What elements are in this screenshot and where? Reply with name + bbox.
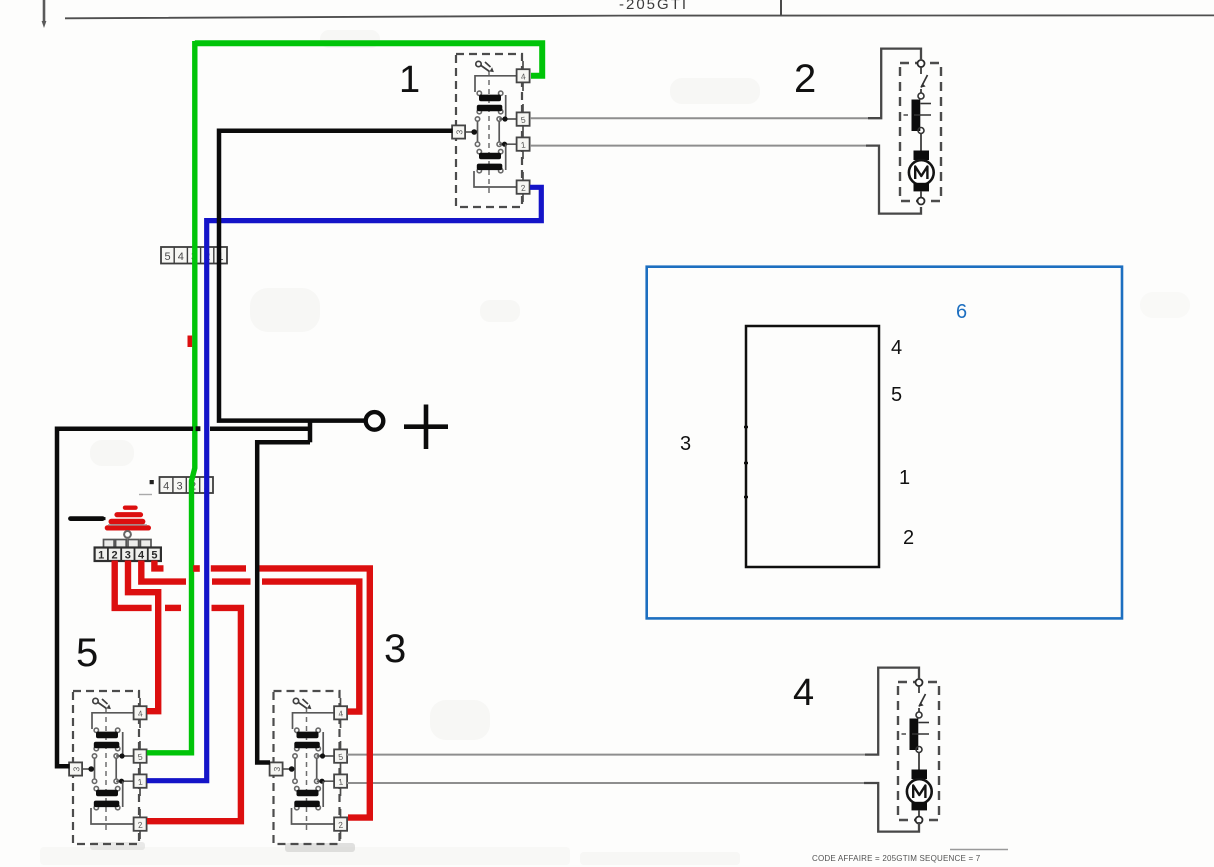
title block left tick bbox=[43, 0, 46, 22]
svg-text:1: 1 bbox=[98, 550, 104, 562]
red wire pin2 to switch5 pin2 bbox=[115, 561, 152, 608]
stack stem ring bbox=[124, 531, 131, 538]
wire switch3 pin7 to motor4 (grey) bbox=[347, 782, 864, 784]
svg-text:2: 2 bbox=[903, 527, 914, 549]
wire switch1 pin1 to motor2 (grey) bbox=[530, 145, 866, 147]
wire switch3 pin6 to motor4 (grey) bbox=[347, 754, 865, 756]
battery positive ring terminal bbox=[366, 412, 384, 430]
shadow under switch 5 bbox=[90, 842, 145, 850]
artifact dash under strip 4321 bbox=[139, 494, 152, 496]
battery node stub bbox=[308, 421, 313, 443]
svg-text:3: 3 bbox=[177, 481, 183, 493]
svg-text:4: 4 bbox=[138, 550, 145, 562]
switch 1 (driver window switch) bbox=[452, 54, 529, 207]
svg-text:5: 5 bbox=[151, 550, 157, 562]
svg-text:2: 2 bbox=[111, 550, 117, 562]
artifact dot left of strip 4321 bbox=[150, 480, 154, 484]
connector 12345 strip bbox=[95, 548, 161, 562]
red wire pin3 to switch5 pin4 bbox=[128, 561, 158, 712]
junction dot on green bbox=[196, 426, 201, 431]
black wire battery to switch3 pin3 bbox=[257, 442, 310, 762]
svg-text:5: 5 bbox=[891, 384, 902, 406]
red wire pin5 to switch3 pin2 bbox=[154, 561, 163, 569]
svg-text:3: 3 bbox=[125, 550, 131, 562]
svg-text:4: 4 bbox=[163, 481, 169, 493]
svg-text:1: 1 bbox=[899, 467, 910, 489]
motor 4 (window motor) bbox=[898, 679, 939, 824]
connector keying ticks bbox=[744, 426, 748, 428]
switch 3 (right rear window switch) bbox=[270, 691, 348, 844]
svg-text:6: 6 bbox=[956, 301, 967, 323]
wire switch1 pin5 to motor2 (grey) bbox=[530, 117, 868, 119]
svg-text:-205GTI: -205GTI bbox=[619, 0, 688, 13]
svg-text:4: 4 bbox=[178, 251, 184, 263]
svg-text:4: 4 bbox=[891, 337, 902, 359]
svg-text:3: 3 bbox=[384, 627, 406, 671]
title block divider tick bbox=[780, 0, 782, 16]
red wire pin4 to switch3 pin4 bbox=[141, 561, 186, 582]
earth minus bar bbox=[71, 516, 103, 521]
svg-text:5: 5 bbox=[165, 251, 171, 263]
stack grey shadow bbox=[108, 524, 147, 526]
connector strip 4321 bbox=[160, 477, 214, 493]
title block top rule bbox=[65, 15, 1214, 18]
motor 2 (window motor) bbox=[900, 60, 941, 205]
connector 12345 upper cavities bbox=[104, 540, 152, 548]
svg-text:1: 1 bbox=[399, 59, 420, 101]
switch 5 (left rear window switch) bbox=[69, 691, 147, 844]
footer rule bbox=[950, 849, 1008, 851]
svg-text:3: 3 bbox=[680, 433, 691, 455]
blue wire switch1 pin2 to switch5 pin1 bbox=[147, 187, 542, 780]
green wire switch1 pin4 to switch5 pin5 (top run) bbox=[195, 43, 542, 75]
svg-text:5: 5 bbox=[76, 631, 98, 675]
connector detail frame 6 (blue box) bbox=[647, 267, 1122, 619]
black wire battery to switch5 pin3 bbox=[210, 426, 310, 431]
black wire switch1 pin3 to battery node bbox=[219, 131, 453, 421]
svg-text:CODE AFFAIRE = 205GTIM SEQUENC: CODE AFFAIRE = 205GTIM SEQUENCE = 7 bbox=[812, 854, 981, 863]
green wire vertical run bbox=[147, 41, 195, 753]
connector strip 54321 bbox=[161, 247, 227, 264]
red artifact tick on green bbox=[188, 336, 193, 348]
svg-text:2: 2 bbox=[794, 57, 816, 101]
shadow under switch 3 bbox=[285, 843, 355, 852]
svg-text:4: 4 bbox=[793, 672, 814, 714]
connector body outline bbox=[746, 326, 879, 567]
earth distribution symbol (red stack) bbox=[107, 508, 148, 528]
battery plus sign bbox=[404, 424, 448, 429]
